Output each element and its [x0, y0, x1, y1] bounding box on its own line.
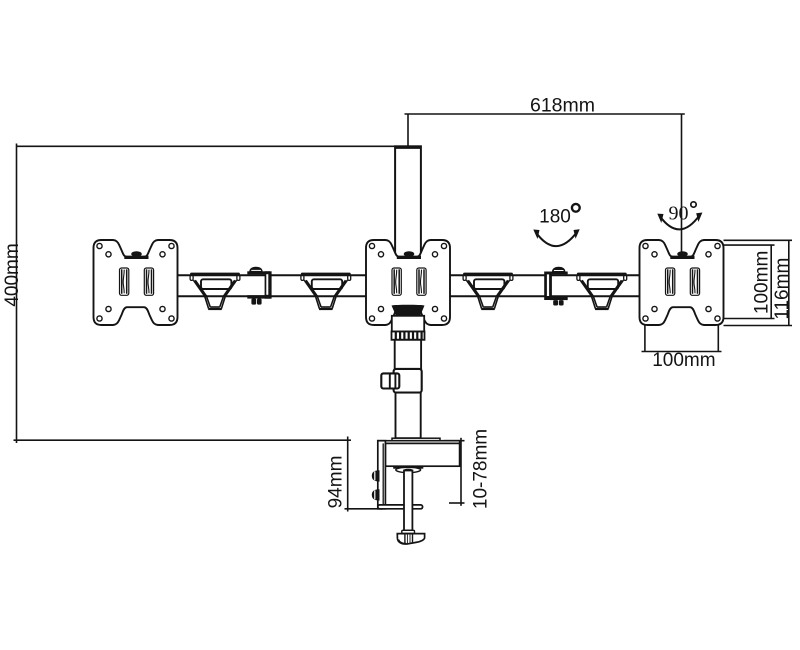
- svg-text:180: 180: [539, 207, 571, 228]
- svg-text:400mm: 400mm: [2, 243, 23, 306]
- svg-text:100mm: 100mm: [652, 350, 715, 371]
- svg-text:100mm: 100mm: [752, 251, 773, 314]
- svg-text:90: 90: [669, 203, 689, 225]
- svg-text:116mm: 116mm: [772, 258, 793, 320]
- svg-text:618mm: 618mm: [530, 95, 595, 117]
- svg-text:10-78mm: 10-78mm: [471, 429, 492, 509]
- svg-text:94mm: 94mm: [326, 456, 347, 509]
